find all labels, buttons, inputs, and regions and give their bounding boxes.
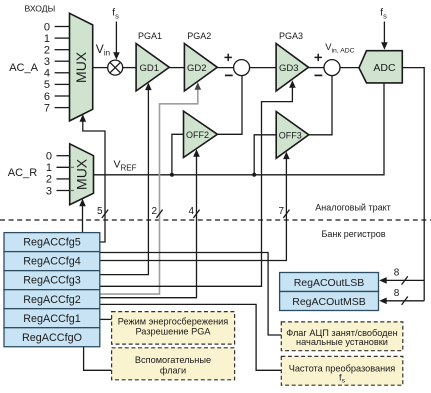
- svg-text:Vin: Vin: [96, 42, 110, 58]
- svg-text:2: 2: [46, 174, 52, 186]
- wire summer S2 to ADC: [340, 67, 359, 69]
- svg-text:VREF: VREF: [114, 158, 137, 172]
- svg-text:2: 2: [151, 206, 157, 217]
- svg-text:флаги: флаги: [160, 365, 186, 375]
- svg-text:5: 5: [44, 79, 50, 91]
- summer S1 plus label: [225, 54, 232, 61]
- svg-text:7: 7: [278, 206, 284, 217]
- wire GD1 to GD2: [169, 67, 184, 69]
- svg-text:RegACCfg2: RegACCfg2: [23, 294, 81, 306]
- wire register to power mode box: [100, 318, 112, 320]
- svg-text:7: 7: [44, 102, 50, 114]
- summer S2: [324, 60, 340, 76]
- svg-text:Банк регистров: Банк регистров: [321, 229, 385, 239]
- offset block OFF3: [276, 112, 309, 159]
- svg-text:4: 4: [188, 206, 194, 217]
- wire OFF2 output to summer S1: [217, 76, 242, 135]
- svg-text:4: 4: [44, 68, 50, 80]
- summer S1 minus label: [225, 74, 233, 76]
- register RegACOutLSB: [280, 273, 379, 292]
- svg-text:6: 6: [44, 91, 50, 103]
- mux U1 input ticks: [55, 27, 70, 108]
- svg-text:fs: fs: [112, 8, 119, 21]
- bus slash 2: [156, 210, 162, 218]
- svg-text:MUX: MUX: [73, 51, 89, 83]
- node junction VREF to OFF3: [252, 173, 256, 177]
- box auxiliary flags: [112, 348, 235, 380]
- wire MUX to multiplier: [93, 67, 108, 69]
- wire register to conversion rate box: [100, 304, 281, 370]
- svg-text:8: 8: [394, 268, 400, 279]
- svg-text:GD2: GD2: [187, 63, 207, 74]
- multiplier (sampler) symbol: [108, 60, 123, 75]
- summer S1: [234, 60, 250, 76]
- svg-text:Vin, ADC: Vin, ADC: [325, 42, 354, 54]
- svg-text:3: 3: [46, 185, 52, 197]
- svg-text:RegACCfg4: RegACCfg4: [23, 256, 81, 268]
- wire register to GD2 gain control (gray, bus 2): [100, 82, 201, 294]
- wire ADC bus to RegACOutMSB with arrow: [379, 298, 424, 305]
- svg-text:AC_A: AC_A: [9, 62, 38, 74]
- wire OFF3 output to summer S2: [309, 76, 332, 135]
- svg-text:OFF3: OFF3: [279, 130, 302, 140]
- register RegACCfg0: [4, 328, 100, 347]
- svg-text:2: 2: [44, 45, 50, 57]
- register RegACCfg1: [4, 309, 100, 328]
- svg-text:3: 3: [44, 56, 50, 68]
- svg-text:5: 5: [97, 206, 103, 217]
- wire register to OFF3 control (bus 7): [100, 152, 290, 261]
- svg-text:RegACCfgO: RegACCfgO: [22, 332, 82, 344]
- wire GD3 to summer S2: [309, 67, 325, 69]
- svg-text:Разрешение PGA: Разрешение PGA: [135, 327, 211, 337]
- wire VREF rail: [94, 83, 385, 175]
- svg-text:fs: fs: [380, 8, 387, 21]
- svg-text:RegACCfg5: RegACCfg5: [23, 237, 81, 249]
- wire summer S1 to GD3: [250, 67, 277, 69]
- svg-text:начальные установки: начальные установки: [296, 337, 388, 347]
- register RegACOutMSB: [280, 292, 379, 311]
- svg-text:PGA3: PGA3: [279, 31, 303, 41]
- mux U3 (reference MUX): [70, 144, 94, 205]
- register RegACCfg2: [4, 290, 100, 309]
- svg-text:Режим энергосбережения: Режим энергосбережения: [118, 316, 229, 326]
- svg-text:RegACCfg1: RegACCfg1: [23, 313, 81, 325]
- svg-text:RegACOutMSB: RegACOutMSB: [292, 296, 366, 308]
- svg-text:OFF2: OFF2: [186, 130, 209, 140]
- mux U1 input pin numbers 0-7: [44, 21, 50, 114]
- offset block OFF2: [184, 111, 218, 157]
- amplifier GD3 (PGA3): [276, 44, 308, 92]
- summer S2 plus label: [315, 54, 322, 61]
- ADC block U2: [359, 51, 402, 83]
- svg-text:PGA1: PGA1: [138, 31, 162, 41]
- svg-text:PGA2: PGA2: [187, 31, 211, 41]
- svg-text:8: 8: [394, 288, 400, 299]
- wire register bottom to aux flags box: [84, 347, 112, 371]
- mux U1 (analog input MUX): [70, 13, 93, 121]
- wire GD2 to summer S1: [217, 67, 233, 69]
- amplifier GD1 (PGA1): [136, 44, 169, 92]
- svg-text:ADC: ADC: [373, 62, 396, 74]
- wire fs to ADC with arrow: [381, 22, 388, 50]
- svg-text:AC_R: AC_R: [8, 167, 37, 179]
- wire ADC output to right bus: [402, 68, 424, 301]
- wire register RegACCfg5 to MUX A select (bus 5): [80, 114, 106, 242]
- bus slash 7: [283, 210, 289, 218]
- svg-text:1: 1: [46, 162, 52, 174]
- mux U3 input pin numbers 0-3: [46, 151, 52, 198]
- svg-text:RegACOutLSB: RegACOutLSB: [294, 277, 365, 289]
- box power mode / PGA enable: [112, 312, 235, 345]
- wire ADC bus to RegACOutLSB with arrow: [379, 277, 424, 284]
- mux U3 input ticks: [57, 156, 75, 191]
- bus slash 4: [193, 210, 199, 218]
- wire multiplier to GD1: [123, 67, 136, 69]
- svg-text:MUX: MUX: [74, 158, 90, 190]
- svg-text:Частота преобразования: Частота преобразования: [289, 364, 396, 374]
- wire register to flag box: [100, 253, 281, 336]
- register RegACCfg5: [4, 233, 100, 252]
- register RegACCfg4: [4, 252, 100, 271]
- wire fs to multiplier with arrow: [113, 22, 120, 60]
- svg-text:0: 0: [44, 21, 50, 33]
- amplifier GD2 (PGA2): [184, 44, 217, 92]
- summer S2 minus label: [315, 74, 323, 76]
- svg-text:GD1: GD1: [140, 63, 160, 74]
- wire register to OFF2 control (bus 4): [100, 149, 200, 297]
- bus slash 8 LSB: [402, 276, 408, 284]
- wire VREF to OFF3 input: [254, 135, 276, 175]
- wire register to GD3 gain control: [100, 80, 296, 286]
- svg-text:0: 0: [46, 151, 52, 163]
- svg-text:GD3: GD3: [279, 63, 299, 74]
- svg-text:Вспомогательные: Вспомогательные: [135, 355, 211, 365]
- svg-text:Аналоговый тракт: Аналоговый тракт: [315, 203, 391, 213]
- bus slash 8 MSB: [402, 297, 408, 305]
- bus slash 5: [102, 210, 108, 218]
- dashed separator analog/register: [0, 219, 431, 221]
- svg-text:RegACCfg3: RegACCfg3: [23, 275, 81, 287]
- wire VREF to OFF2 input: [172, 134, 184, 175]
- wire register to GD1 gain control: [100, 83, 152, 275]
- svg-text:ВХОДЫ: ВХОДЫ: [25, 3, 56, 13]
- box conversion rate fs: [281, 356, 403, 385]
- svg-text:1: 1: [44, 33, 50, 45]
- box ADC busy flag / initial settings: [281, 322, 403, 351]
- register RegACCfg3: [4, 271, 100, 290]
- wire register bank top to MUX R select: [79, 199, 86, 233]
- node junction VREF to OFF2: [170, 173, 174, 177]
